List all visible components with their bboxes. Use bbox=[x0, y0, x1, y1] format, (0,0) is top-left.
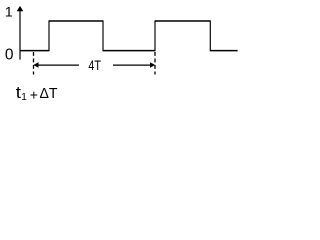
wire dimension line left bbox=[37, 64, 79, 66]
svg-text:ΔT: ΔT bbox=[40, 86, 58, 102]
svg-text:1: 1 bbox=[5, 4, 13, 20]
svg-text:0: 0 bbox=[5, 46, 14, 63]
wire waveform horizontals bbox=[20, 21, 238, 51]
svg-text:+: + bbox=[30, 86, 38, 102]
node 4T-end dashed marker bbox=[154, 52, 156, 75]
wire waveform vertical edges bbox=[49, 20, 210, 51]
axis vertical line bbox=[19, 10, 21, 60]
wire dimension line right bbox=[113, 64, 152, 66]
right arrowhead bbox=[150, 62, 155, 67]
svg-text:1: 1 bbox=[21, 92, 27, 103]
svg-text:4T: 4T bbox=[88, 57, 101, 73]
left arrowhead bbox=[33, 62, 38, 67]
svg-text:t: t bbox=[16, 83, 21, 102]
axis arrowhead bbox=[17, 6, 24, 11]
node t1+dT dashed marker bbox=[33, 52, 35, 75]
